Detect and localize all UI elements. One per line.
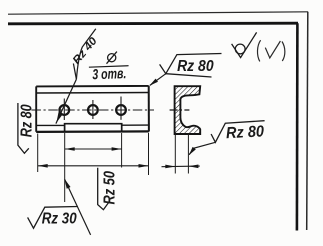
center line through holes (31, 109, 154, 111)
roughness mark Rz 50 (rotated 90, on dimension line) (98, 168, 110, 210)
frame thin outer top line (8, 12, 308, 14)
arrowhead of Rz 30 leader (62, 178, 70, 189)
roughness mark Rz 30 (bottom left) (28, 207, 78, 229)
leader from Rz 40 through hole 1 (56, 79, 77, 123)
hole 3 vertical axis (120, 97, 122, 120)
extension line below cutout left edge (64, 133, 66, 202)
roughness mark Rz 80 (top, on upper surface) (160, 54, 222, 78)
inner dimension line (cutout width) (65, 148, 122, 150)
side view dimension extension line left (174, 134, 176, 173)
hole 2 vertical axis (92, 100, 94, 119)
extension line below plate right edge (148, 133, 150, 175)
side view dimension extension line right (187, 134, 189, 173)
front view: cutout box in bottom flange (65, 124, 122, 132)
side view center line (170, 109, 190, 111)
outer dim arrow left (38, 164, 48, 168)
hole 1 (59, 105, 69, 115)
roughness mark Rz 80 (bottom right) (211, 121, 265, 143)
extension line below plate left edge (37, 134, 39, 173)
arrowhead of bottom right Rz 80 leader (187, 147, 196, 157)
inner dim arrow left (65, 147, 75, 151)
hole 2 (88, 105, 98, 115)
front view: flange edge line under top (36, 92, 149, 95)
outer dimension line (plate length) (38, 165, 149, 167)
arrowhead of Rz 40 leader (54, 112, 63, 124)
extension line below cutout right edge (121, 133, 123, 168)
side view dimension line (162, 165, 200, 168)
shelf line of hole note (89, 66, 129, 68)
leader from bottom right Rz 80 (189, 142, 215, 154)
hole 3 (116, 105, 126, 115)
roughness mark Rz 40 (check on leader) (73, 29, 95, 79)
svg-text:Rz 50: Rz 50 (101, 171, 118, 205)
left roughness mark Rz 80 (rotated 90) (18, 103, 29, 153)
svg-text:3 отв.: 3 отв. (92, 66, 127, 83)
side dim arrow left (165, 165, 175, 169)
front view: bottom flange edge line left segment (36, 124, 64, 126)
svg-text:Rz 30: Rz 30 (42, 210, 77, 227)
general roughness symbol with circle (top right) (232, 32, 257, 57)
frame thin outer right line (307, 12, 308, 230)
leader from Rz 30 to extension line (65, 179, 91, 235)
hole 1 vertical axis (63, 99, 65, 121)
parenthesized check mark (v) (257, 40, 284, 61)
front view: bottom flange edge line right segment (122, 124, 149, 126)
svg-text:Rz 80: Rz 80 (177, 58, 214, 75)
outer dim arrow right (139, 164, 149, 168)
frame thick inner right line (296, 23, 299, 230)
inner dim arrow right (112, 147, 122, 151)
frame thick inner top line (8, 22, 298, 25)
svg-text:Rz 80: Rz 80 (18, 104, 35, 137)
side dim arrow right (188, 165, 198, 169)
arrowhead at plate top right corner (148, 79, 158, 88)
front view: plate outline (36, 86, 149, 132)
svg-text:Rz 80: Rz 80 (226, 123, 265, 142)
diameter symbol (107, 52, 117, 64)
leader from top Rz 80 to plate corner (150, 74, 166, 86)
side view: channel section outline with hatching (175, 86, 201, 134)
